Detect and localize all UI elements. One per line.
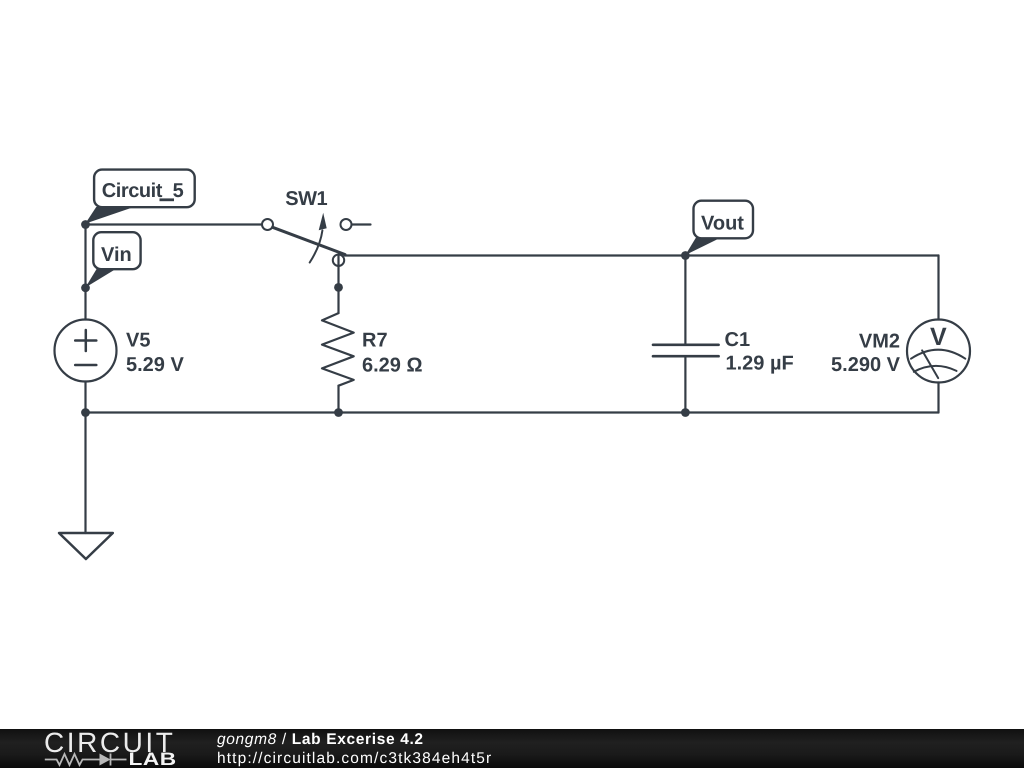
flag Circuit_5 [85,170,194,224]
svg-text:1.29 µF: 1.29 µF [726,353,794,375]
svg-text:Vout: Vout [701,213,744,235]
ground [59,533,113,559]
flag Vin [85,232,140,287]
footer bar [0,729,1024,768]
wire voltmeter top lead [937,256,939,320]
svg-text:6.29 Ω: 6.29 Ω [362,355,423,377]
svg-text:V: V [930,323,947,351]
svg-text:SW1: SW1 [285,188,327,210]
junction dot Vin top node [81,220,90,229]
svg-text:V5: V5 [126,330,150,352]
switch SW1 [262,213,371,266]
wire to ground [84,413,86,534]
junction dot bottom left [81,408,90,417]
resistor R7 [322,313,354,386]
junction dot resistor bottom [334,408,343,417]
svg-text:Vin: Vin [101,244,132,266]
wire capacitor bottom lead [684,356,686,412]
svg-text:gongm8 / Lab Excerise 4.2: gongm8 / Lab Excerise 4.2 [217,731,424,748]
wire Vin node to switch throw 1 [86,223,263,225]
svg-text:R7: R7 [362,330,388,352]
svg-text:LAB: LAB [129,749,177,768]
wire capacitor top lead [684,256,686,345]
wire resistor bottom lead [337,386,339,413]
junction dot Vout node [681,251,690,260]
svg-text:VM2: VM2 [859,331,900,353]
wire voltmeter bottom lead [937,383,939,413]
voltage source V5 [55,320,117,382]
wire top rail from switch to voltmeter [345,254,939,256]
flag Vout [685,201,753,255]
voltmeter VM2 [907,320,970,383]
wire V5 bottom lead [84,382,86,413]
svg-text:http://circuitlab.com/c3tk384e: http://circuitlab.com/c3tk384eh4t5r [217,750,492,767]
wire bottom rail [86,411,939,413]
junction dot capacitor bottom [681,408,690,417]
logo diode symbol [45,754,127,766]
wire switch pole down to resistor [337,255,339,314]
junction dot resistor top [334,283,343,292]
svg-text:5.290 V: 5.290 V [831,354,901,376]
capacitor C1 [653,345,719,356]
wire Vin vertical segment [84,225,86,320]
junction dot Vin lower node [81,283,90,292]
svg-text:C1: C1 [725,329,751,351]
svg-text:5.29 V: 5.29 V [126,354,184,376]
